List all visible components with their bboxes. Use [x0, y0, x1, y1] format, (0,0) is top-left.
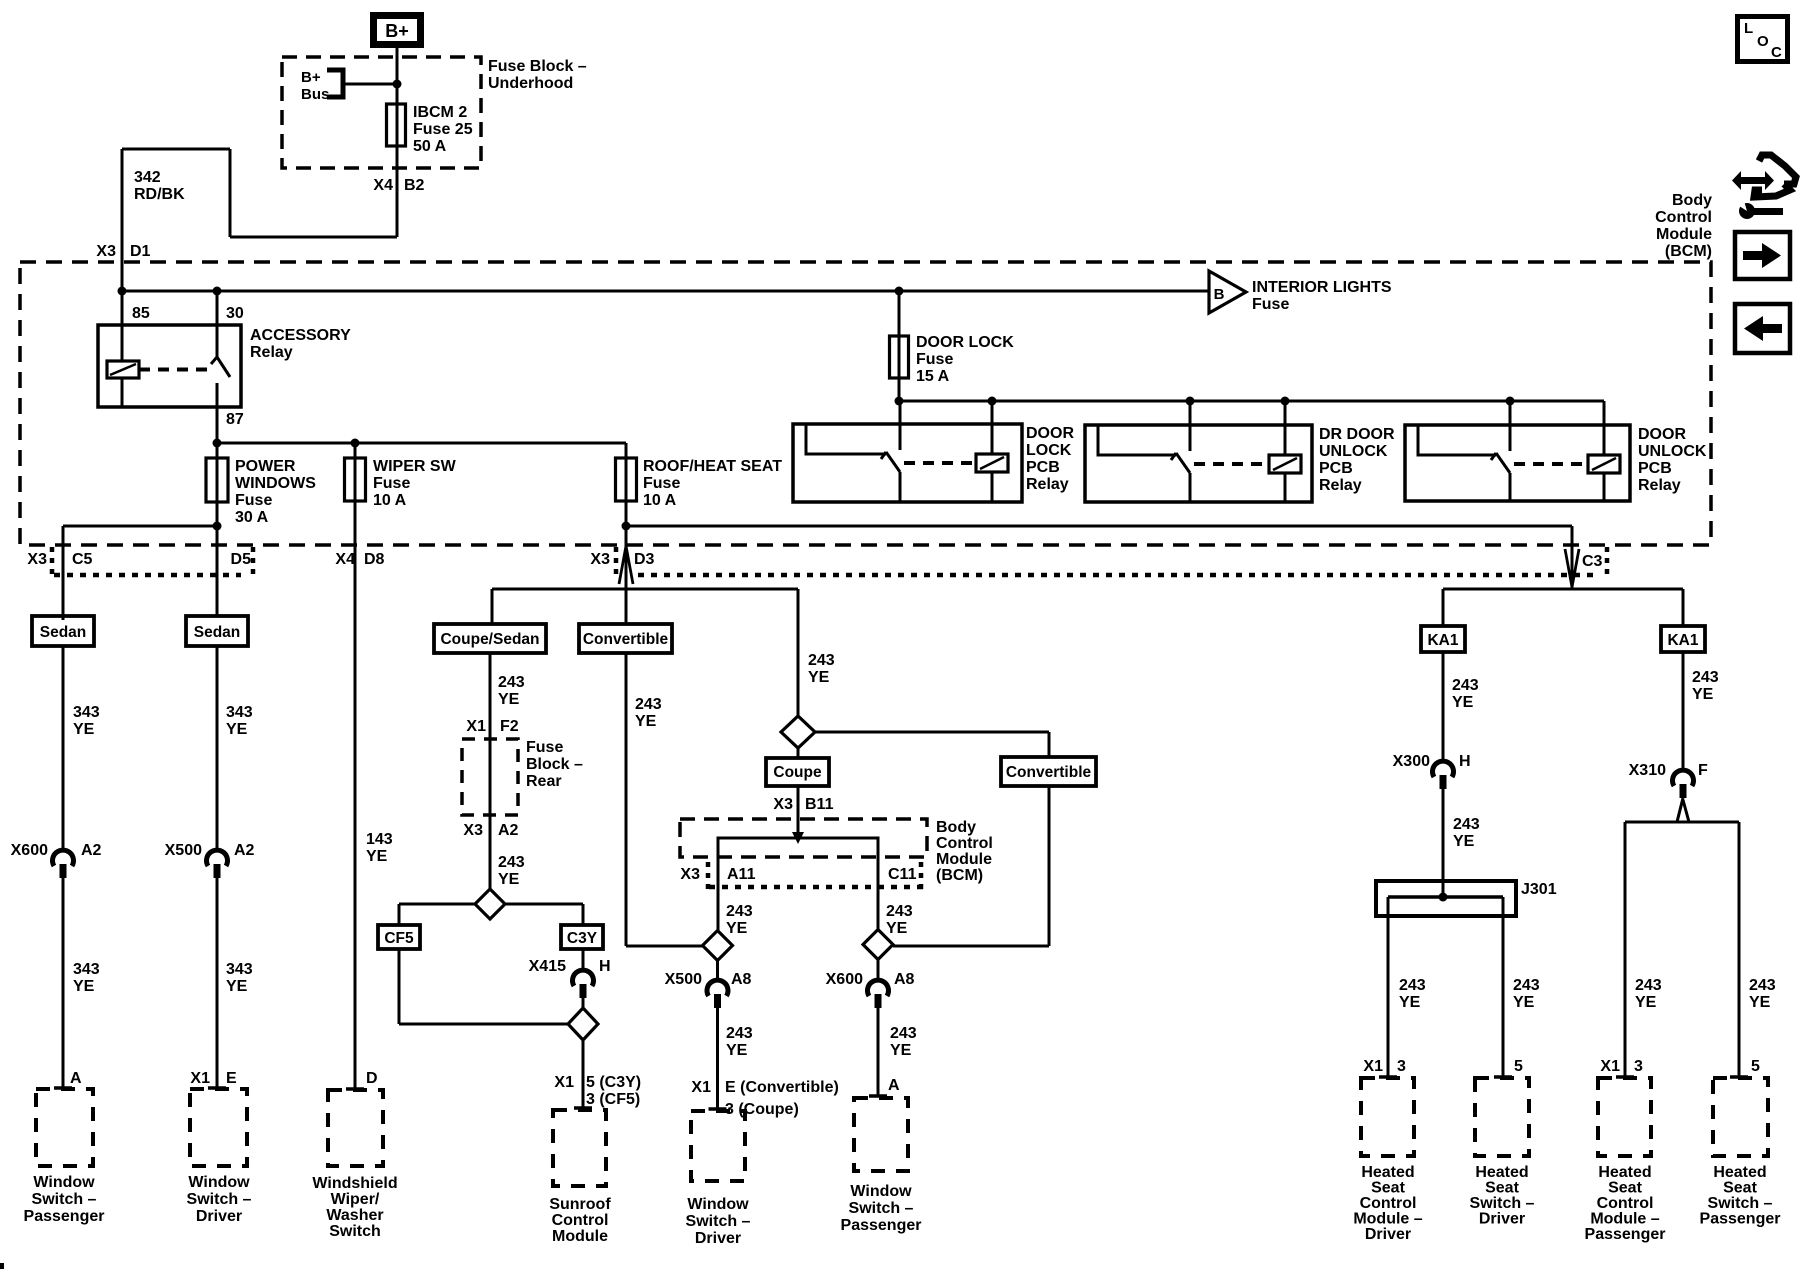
svg-text:343: 343 [226, 704, 253, 721]
connector X310 F [1672, 770, 1693, 786]
component Heated Seat Switch Passenger dashed box [1713, 1078, 1768, 1156]
wire coupe diamond to convertible right [815, 731, 1049, 734]
svg-text:YE: YE [1749, 994, 1771, 1011]
svg-text:Control: Control [1655, 209, 1712, 226]
accessory relay switch [216, 291, 219, 357]
svg-text:343: 343 [73, 704, 100, 721]
svg-text:B+: B+ [385, 21, 409, 41]
connector X415 H [573, 970, 594, 986]
svg-text:343: 343 [73, 961, 100, 978]
wire accessory output bus 87 [217, 442, 626, 445]
connector X300 H [1433, 761, 1454, 777]
svg-text:YE: YE [886, 920, 908, 937]
svg-text:ROOF/HEAT SEAT: ROOF/HEAT SEAT [643, 458, 782, 475]
connector X3 dotted outline right [614, 547, 619, 577]
svg-text:Switch –: Switch – [686, 1213, 751, 1230]
svg-text:YE: YE [726, 1042, 748, 1059]
option box KA1 right [1661, 626, 1705, 652]
svg-text:Seat: Seat [1608, 1180, 1642, 1197]
svg-text:C3Y: C3Y [567, 930, 598, 947]
splice diamond X500 [703, 931, 733, 961]
component Heated Seat Switch Driver dashed box [1475, 1078, 1529, 1156]
svg-text:Passenger: Passenger [1585, 1226, 1666, 1243]
splice diamond coupe/sedan [475, 889, 505, 919]
svg-text:Control: Control [936, 835, 993, 852]
svg-text:C3: C3 [1582, 553, 1603, 570]
svg-text:143: 143 [366, 831, 393, 848]
svg-text:B+: B+ [301, 69, 321, 86]
svg-text:Heated: Heated [1475, 1164, 1528, 1181]
interior lights fuse symbol B triangle [1209, 271, 1246, 313]
svg-text:Seat: Seat [1371, 1180, 1405, 1197]
wire CF5 to lower diamond [398, 949, 401, 1024]
svg-text:X1: X1 [1363, 1058, 1383, 1075]
svg-text:Module: Module [936, 851, 992, 868]
svg-text:PCB: PCB [1026, 459, 1060, 476]
fuse DOOR LOCK 15A [890, 336, 909, 378]
svg-text:Relay: Relay [1319, 477, 1362, 494]
svg-text:YE: YE [1453, 833, 1475, 850]
wire roof heat seat fuse branch [625, 443, 628, 589]
svg-text:C: C [1771, 44, 1782, 61]
svg-text:Seat: Seat [1723, 1180, 1757, 1197]
option box Coupe/Sedan [434, 624, 546, 653]
svg-text:YE: YE [726, 920, 748, 937]
svg-text:PCB: PCB [1319, 460, 1353, 477]
svg-text:A8: A8 [894, 971, 915, 988]
accessory relay [98, 325, 241, 407]
svg-text:X3: X3 [27, 551, 47, 568]
junction bus R1 coil [988, 397, 997, 406]
svg-text:X1: X1 [1600, 1058, 1620, 1075]
fuse block underhood dashed box [282, 57, 481, 168]
svg-text:243: 243 [1513, 977, 1540, 994]
svg-text:A11: A11 [727, 866, 756, 883]
svg-text:Underhood: Underhood [488, 75, 573, 92]
svg-text:Fuse: Fuse [235, 492, 272, 509]
svg-text:X3: X3 [590, 551, 610, 568]
svg-text:30 A: 30 A [235, 509, 269, 526]
svg-text:A: A [70, 1070, 82, 1087]
svg-text:5: 5 [1751, 1058, 1760, 1075]
wire J301 to heated seat switch driver [1502, 897, 1505, 1078]
svg-text:3 (Coupe): 3 (Coupe) [725, 1101, 799, 1118]
wire diamond to CF5 [399, 903, 475, 906]
svg-text:E: E [226, 1070, 237, 1087]
harness routing icon [1732, 171, 1774, 190]
svg-text:(BCM): (BCM) [936, 867, 983, 884]
svg-text:YE: YE [1692, 686, 1714, 703]
svg-text:YE: YE [73, 978, 95, 995]
svg-text:H: H [1459, 753, 1471, 770]
svg-text:YE: YE [226, 721, 248, 738]
svg-text:243: 243 [726, 1025, 753, 1042]
svg-text:INTERIOR LIGHTS: INTERIOR LIGHTS [1252, 279, 1392, 296]
svg-text:15 A: 15 A [916, 368, 950, 385]
svg-text:X3: X3 [773, 796, 793, 813]
connector X600 A8 [868, 980, 889, 996]
wire sedan branch split [63, 525, 217, 528]
svg-text:50 A: 50 A [413, 138, 447, 155]
svg-text:3: 3 [1634, 1058, 1643, 1075]
svg-text:243: 243 [1399, 977, 1426, 994]
option box CF5 [378, 925, 420, 949]
svg-text:X600: X600 [11, 842, 48, 859]
connector X500 A8 [707, 980, 728, 996]
junction sedan split [213, 522, 222, 531]
svg-text:243: 243 [808, 652, 835, 669]
svg-text:KA1: KA1 [1667, 632, 1698, 649]
svg-text:X3: X3 [463, 822, 483, 839]
svg-text:LOCK: LOCK [1026, 442, 1072, 459]
svg-text:Seat: Seat [1485, 1180, 1519, 1197]
page corner mark [0, 1263, 4, 1269]
junction rail at coil [118, 287, 127, 296]
svg-text:X1: X1 [691, 1079, 711, 1096]
svg-text:A8: A8 [731, 971, 752, 988]
svg-text:Switch –: Switch – [849, 1200, 914, 1217]
component Windshield Wiper Washer Switch dashed box [328, 1090, 383, 1166]
B+ Bus bar tap [327, 70, 343, 97]
svg-text:DR DOOR: DR DOOR [1319, 426, 1395, 443]
svg-text:X1: X1 [466, 718, 486, 735]
option box Convertible right [1001, 757, 1096, 786]
LOC legend box [1738, 17, 1788, 62]
svg-text:Passenger: Passenger [24, 1208, 105, 1225]
svg-text:Driver: Driver [1365, 1226, 1411, 1243]
svg-text:X3: X3 [96, 243, 116, 260]
junction bus R3 switch [1506, 397, 1515, 406]
wire D3 split to coupe/sedan and coupe [492, 588, 798, 591]
component Sunroof Control Module dashed box [553, 1110, 606, 1186]
svg-text:Module: Module [1656, 226, 1712, 243]
svg-text:Washer: Washer [326, 1207, 383, 1224]
wire to heated seat control module passenger [1624, 822, 1627, 1078]
svg-text:243: 243 [1692, 669, 1719, 686]
wire sedan passenger branch [62, 526, 65, 616]
svg-text:Windshield: Windshield [312, 1175, 397, 1192]
option box Sedan right [186, 616, 248, 646]
svg-text:243: 243 [1452, 677, 1479, 694]
svg-text:243: 243 [635, 696, 662, 713]
svg-text:X300: X300 [1393, 753, 1430, 770]
splice diamond sunroof [568, 1008, 598, 1040]
connector X3 dotted outline left [50, 547, 55, 577]
svg-text:YE: YE [366, 848, 388, 865]
svg-text:Fuse Block –: Fuse Block – [488, 58, 587, 75]
svg-text:30: 30 [226, 305, 244, 322]
svg-text:X1: X1 [190, 1070, 210, 1087]
svg-text:IBCM 2: IBCM 2 [413, 104, 467, 121]
wire convertible right to X600 diamond [1048, 786, 1051, 946]
svg-text:Driver: Driver [196, 1208, 242, 1225]
svg-text:J301: J301 [1521, 881, 1557, 898]
wire door lock fuse feed [898, 291, 901, 401]
svg-text:Window: Window [850, 1183, 912, 1200]
svg-text:YE: YE [226, 978, 248, 995]
svg-text:UNLOCK: UNLOCK [1638, 443, 1707, 460]
BCM window switch feed dashed box [680, 819, 927, 857]
svg-text:243: 243 [1453, 816, 1480, 833]
svg-text:Passenger: Passenger [841, 1217, 922, 1234]
svg-text:YE: YE [635, 713, 657, 730]
component Window Switch Driver dashed box [190, 1089, 247, 1166]
component Heated Seat Control Module Passenger dashed box [1598, 1078, 1651, 1156]
svg-text:Control: Control [1597, 1195, 1654, 1212]
svg-text:B11: B11 [805, 796, 834, 813]
svg-text:X600: X600 [826, 971, 863, 988]
option box KA1 left [1421, 626, 1465, 652]
svg-text:Switch: Switch [329, 1223, 381, 1240]
component Window Switch Passenger dashed box [36, 1089, 93, 1166]
wire B+ to fuse block and down to BCM [396, 48, 399, 237]
splice J301 [1376, 881, 1516, 916]
svg-text:Heated: Heated [1361, 1164, 1414, 1181]
svg-text:B: B [1214, 286, 1225, 303]
svg-text:PCB: PCB [1638, 460, 1672, 477]
svg-text:Convertible: Convertible [583, 631, 669, 648]
battery feed B+ terminal [374, 16, 421, 45]
svg-text:343: 343 [226, 961, 253, 978]
Body Control Module dashed border [20, 262, 1711, 545]
svg-text:YE: YE [890, 1042, 912, 1059]
svg-text:D5: D5 [231, 551, 252, 568]
svg-text:Module –: Module – [1590, 1211, 1659, 1228]
svg-text:E (Convertible): E (Convertible) [725, 1079, 839, 1096]
svg-text:Switch –: Switch – [32, 1191, 97, 1208]
svg-text:Control: Control [552, 1212, 609, 1229]
svg-text:243: 243 [498, 674, 525, 691]
svg-text:Relay: Relay [250, 344, 293, 361]
splice diamond coupe [781, 716, 815, 748]
svg-text:Heated: Heated [1598, 1164, 1651, 1181]
BCM internal rail [718, 838, 878, 931]
svg-text:KA1: KA1 [1427, 632, 1458, 649]
svg-text:5 (C3Y): 5 (C3Y) [586, 1074, 641, 1091]
svg-text:DOOR LOCK: DOOR LOCK [916, 334, 1014, 351]
accessory relay coil [107, 361, 139, 378]
svg-text:243: 243 [886, 903, 913, 920]
splice diamond X600 [863, 930, 893, 960]
svg-text:10 A: 10 A [373, 492, 407, 509]
svg-text:Module: Module [552, 1228, 608, 1245]
junction bus R2 switch [1186, 397, 1195, 406]
svg-text:ACCESSORY: ACCESSORY [250, 327, 351, 344]
svg-text:Body: Body [1672, 192, 1712, 209]
svg-text:D8: D8 [364, 551, 385, 568]
svg-text:F: F [1698, 762, 1708, 779]
svg-text:C11: C11 [888, 866, 917, 883]
wire C3Y to X415 [582, 949, 585, 972]
svg-text:L: L [1744, 20, 1753, 37]
arrow down out of C3 [1565, 549, 1572, 587]
svg-text:Convertible: Convertible [1006, 764, 1092, 781]
relay DOOR UNLOCK PCB [1405, 425, 1630, 501]
svg-text:D1: D1 [130, 243, 151, 260]
svg-text:Module –: Module – [1353, 1211, 1422, 1228]
fuse WIPER SW 10A [345, 458, 366, 501]
svg-text:243: 243 [1635, 977, 1662, 994]
wire convertible to X500 diamond [625, 653, 628, 946]
junction bus R1 switch [895, 397, 904, 406]
svg-text:X1: X1 [554, 1074, 574, 1091]
svg-text:Driver: Driver [695, 1230, 741, 1247]
svg-text:WINDOWS: WINDOWS [235, 475, 316, 492]
svg-text:Driver: Driver [1479, 1211, 1525, 1228]
svg-text:243: 243 [498, 854, 525, 871]
svg-text:A: A [888, 1077, 900, 1094]
component Heated Seat Control Module Driver dashed box [1361, 1078, 1414, 1156]
svg-text:Fuse: Fuse [526, 739, 563, 756]
svg-text:Fuse: Fuse [916, 351, 953, 368]
svg-text:Block –: Block – [526, 756, 583, 773]
fuse block rear dashed box [462, 739, 518, 815]
svg-text:POWER: POWER [235, 458, 296, 475]
svg-text:Coupe/Sedan: Coupe/Sedan [440, 631, 539, 648]
svg-text:Passenger: Passenger [1700, 1211, 1781, 1228]
option box Coupe [797, 748, 800, 758]
svg-text:243: 243 [1749, 977, 1776, 994]
svg-text:X310: X310 [1629, 762, 1666, 779]
junction 87 bus power windows [213, 439, 222, 448]
relay DR DOOR UNLOCK PCB [1085, 425, 1312, 502]
svg-text:3: 3 [1397, 1058, 1406, 1075]
svg-text:Fuse 25: Fuse 25 [413, 121, 473, 138]
svg-text:A2: A2 [81, 842, 102, 859]
svg-text:DOOR: DOOR [1026, 425, 1074, 442]
svg-text:Window: Window [687, 1196, 749, 1213]
wire coupe/sedan to fuse block rear [489, 653, 492, 889]
svg-text:A2: A2 [498, 822, 519, 839]
wire C3 split to KA1 pair [1443, 588, 1683, 591]
wire diamond to sunroof module [582, 1040, 585, 1108]
component Window Switch Driver coupe dashed box [691, 1111, 745, 1181]
wire to heated seat switch passenger [1738, 822, 1741, 1078]
component Window Switch Passenger coupe dashed box [854, 1098, 908, 1171]
junction rail at switch [213, 287, 222, 296]
svg-text:Body: Body [936, 819, 976, 836]
svg-text:Fuse: Fuse [1252, 296, 1289, 313]
svg-text:X500: X500 [165, 842, 202, 859]
option box C3Y [561, 925, 603, 949]
svg-text:YE: YE [1399, 994, 1421, 1011]
wire KA1 left to X300 [1442, 652, 1445, 763]
wire diamond to C3Y [505, 903, 583, 906]
svg-text:X500: X500 [665, 971, 702, 988]
svg-text:Switch –: Switch – [187, 1191, 252, 1208]
svg-text:Relay: Relay [1026, 476, 1069, 493]
junction roof fuse split [622, 522, 631, 531]
svg-text:C5: C5 [72, 551, 93, 568]
svg-text:87: 87 [226, 411, 244, 428]
svg-text:Sedan: Sedan [40, 624, 87, 641]
option box Sedan left [32, 616, 94, 646]
svg-text:Switch –: Switch – [1708, 1195, 1773, 1212]
arrowhead into BCM internal rail [792, 832, 804, 844]
svg-text:F2: F2 [500, 718, 519, 735]
svg-text:UNLOCK: UNLOCK [1319, 443, 1388, 460]
svg-text:YE: YE [73, 721, 95, 738]
arrow up into D3 [619, 546, 626, 584]
svg-text:85: 85 [132, 305, 150, 322]
svg-text:Bus: Bus [301, 86, 329, 103]
fuse POWER WINDOWS 30A [206, 458, 228, 502]
svg-text:B2: B2 [404, 177, 425, 194]
wire roof fuse to C3 feed [626, 525, 1572, 528]
svg-text:DOOR: DOOR [1638, 426, 1686, 443]
wire X310 split [1677, 798, 1683, 822]
connector X500 A2 [207, 850, 228, 866]
svg-text:Relay: Relay [1638, 477, 1681, 494]
svg-text:3 (CF5): 3 (CF5) [586, 1091, 640, 1108]
svg-text:Coupe: Coupe [773, 764, 822, 781]
svg-text:YE: YE [498, 691, 520, 708]
svg-text:(BCM): (BCM) [1665, 243, 1712, 260]
svg-text:Switch –: Switch – [1470, 1195, 1535, 1212]
svg-text:243: 243 [890, 1025, 917, 1042]
wire J301 to heated seat control module driver [1387, 897, 1390, 1078]
svg-text:Window: Window [33, 1174, 95, 1191]
svg-text:O: O [1757, 33, 1769, 50]
svg-text:X3: X3 [680, 866, 700, 883]
fuse ROOF/HEAT SEAT 10A [616, 458, 637, 501]
svg-text:5: 5 [1514, 1058, 1523, 1075]
arrow legend left [1735, 304, 1790, 353]
svg-text:243: 243 [726, 903, 753, 920]
svg-text:Wiper/: Wiper/ [331, 1191, 380, 1208]
svg-text:Heated: Heated [1713, 1164, 1766, 1181]
svg-text:Rear: Rear [526, 773, 562, 790]
svg-text:A2: A2 [234, 842, 255, 859]
svg-text:Sunroof: Sunroof [549, 1196, 611, 1213]
arrow legend right [1735, 232, 1790, 279]
junction bus R2 coil [1281, 397, 1290, 406]
svg-text:WIPER SW: WIPER SW [373, 458, 457, 475]
svg-text:D3: D3 [634, 551, 655, 568]
svg-text:RD/BK: RD/BK [134, 186, 185, 203]
svg-text:342: 342 [134, 169, 161, 186]
svg-text:10 A: 10 A [643, 492, 677, 509]
svg-text:YE: YE [1452, 694, 1474, 711]
wire sedan driver branch [216, 646, 219, 852]
svg-text:X415: X415 [529, 958, 566, 975]
wire KA1 right to X310 [1682, 652, 1685, 772]
fuse IBCM 2 50A [387, 104, 406, 146]
option box Convertible left [579, 624, 672, 653]
svg-text:YE: YE [1635, 994, 1657, 1011]
wire coupe to BCM B11 [797, 786, 800, 838]
svg-text:Sedan: Sedan [194, 624, 241, 641]
svg-text:Fuse: Fuse [373, 475, 410, 492]
svg-text:Fuse: Fuse [643, 475, 680, 492]
junction 87 bus wiper [351, 439, 360, 448]
connector X600 A2 [53, 850, 74, 866]
svg-text:YE: YE [1513, 994, 1535, 1011]
wire wiper fuse branch [354, 443, 357, 1089]
svg-text:H: H [599, 958, 611, 975]
svg-text:YE: YE [498, 871, 520, 888]
svg-text:Window: Window [188, 1174, 250, 1191]
wire main rail to interior lights [122, 290, 1209, 293]
svg-text:X4: X4 [373, 177, 393, 194]
relay DOOR LOCK PCB [793, 424, 1022, 502]
wire power windows fuse branch [216, 443, 219, 616]
junction B+ bus [393, 80, 402, 89]
svg-text:D: D [366, 1070, 378, 1087]
wire relay supply bus [899, 400, 1604, 403]
junction rail at door lock fuse [895, 287, 904, 296]
svg-text:Control: Control [1360, 1195, 1417, 1212]
